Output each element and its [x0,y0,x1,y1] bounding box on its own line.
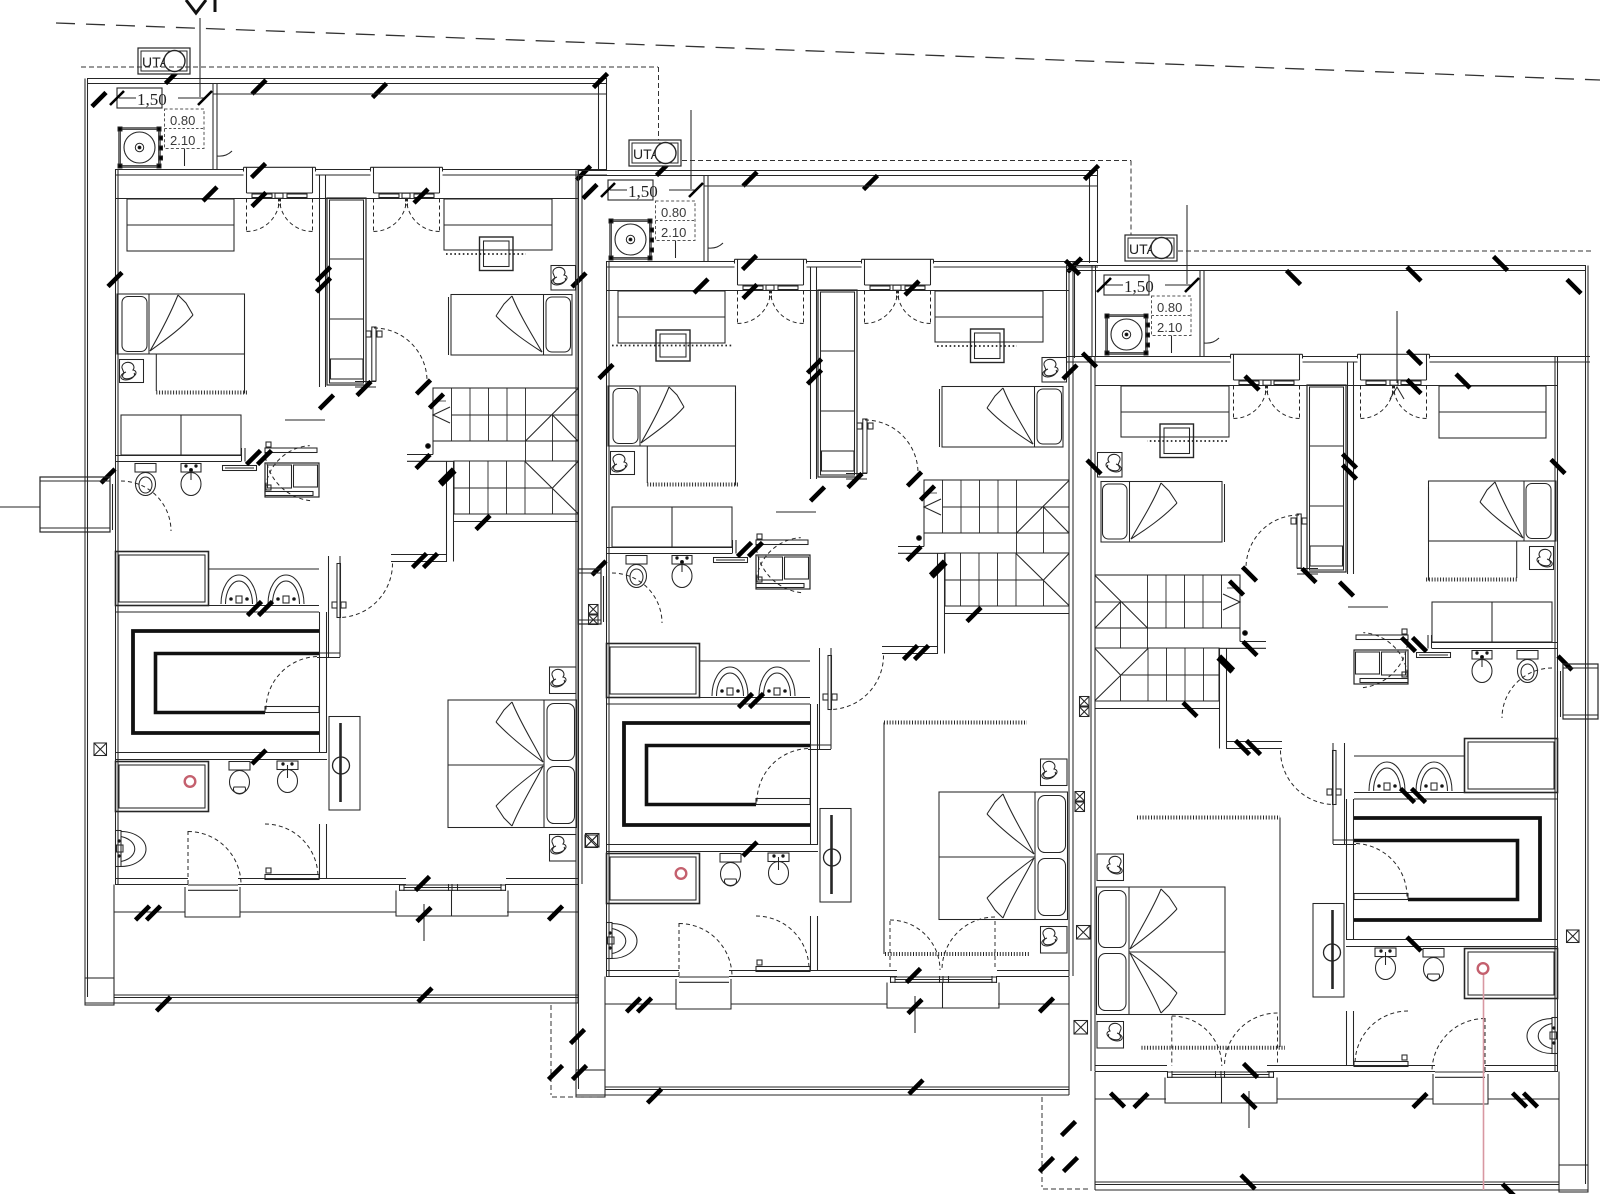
unit 3 floor plan (mirrored copy) [1066,257,1589,1194]
unit 1 utility corner [110,18,232,170]
dashed drop to UTA3 [1130,161,1132,236]
unit3 window dimension leader [1396,311,1398,383]
unit3 left wall upper [1091,266,1093,357]
unit1 left balcony box [40,477,110,532]
unit3 master terrace door arcs [1171,1017,1173,1067]
gap2 dashed wall [1041,1097,1043,1187]
gap2 ticks [1062,1122,1076,1136]
dashed service line unit1 [81,66,658,68]
V mark top [186,0,206,13]
unit3 red supply line [1483,975,1485,1190]
unit2 bedroom1 tv table [656,330,690,361]
unit 2 floor plan (copy) [576,162,1099,1104]
unit3 master rug comb border [1137,816,1280,820]
dashed service line unit3 [1178,250,1594,252]
gap1 dashed wall [550,1005,552,1095]
unit1 terrace inner line [213,93,607,95]
gap1 ticks [571,1030,585,1044]
unit2 master terrace door arcs [889,921,891,969]
dashed service line unit2 [682,160,1131,162]
unit3 top wall extension [1558,356,1590,358]
unit3 extra terrace ticks [1134,1094,1148,1108]
unit2 left balcony box [578,569,601,624]
unit 2 utility corner [601,110,723,262]
unit 3 utility corner [1097,205,1219,357]
unit3 right balcony box [1563,664,1598,719]
dashed drop to UTA2 [658,67,660,140]
property boundary long-dash line [56,23,1600,80]
unit 1 floor plan [85,70,608,1012]
unit2 master rug comb border [884,721,1027,725]
unit2 terrace inner line [704,185,1098,187]
